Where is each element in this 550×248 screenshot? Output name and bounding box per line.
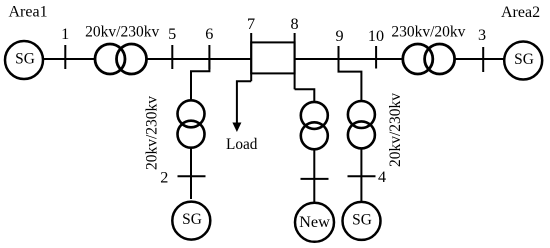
svg-text:8: 8 bbox=[290, 15, 298, 33]
node bus 6 bbox=[208, 45, 210, 69]
svg-text:10: 10 bbox=[368, 27, 384, 45]
node bus 10 bbox=[375, 46, 377, 69]
svg-text:20kv/230kv: 20kv/230kv bbox=[387, 93, 404, 167]
wire load branch bbox=[237, 81, 251, 123]
node bus New tick bbox=[301, 178, 329, 180]
wire branch bus8 to New transformer bbox=[295, 89, 315, 102]
generator SG Area1 bbox=[5, 41, 43, 79]
svg-text:20kv/230kv: 20kv/230kv bbox=[85, 24, 159, 41]
node bus 3 bbox=[482, 47, 484, 72]
transformer T3 230kv/20kv bbox=[403, 44, 455, 74]
svg-text:1: 1 bbox=[61, 25, 69, 43]
svg-text:Area1: Area1 bbox=[9, 4, 48, 21]
svg-text:SG: SG bbox=[15, 51, 35, 68]
transformer T1 20kv/230kv bbox=[95, 44, 147, 74]
wire main bus left bbox=[43, 58, 251, 60]
node bus 1 bbox=[64, 45, 66, 69]
svg-text:3: 3 bbox=[478, 26, 486, 44]
wire main bus right bbox=[295, 58, 504, 60]
generator SG Area2 bbox=[504, 42, 542, 80]
transformer T5 vertical bus4 bbox=[348, 101, 375, 148]
node bus 2 bbox=[178, 175, 206, 177]
wire New column bbox=[313, 149, 315, 202]
node bus 5 bbox=[171, 45, 173, 69]
node bus 7 bbox=[250, 33, 252, 81]
wire branch bus9 down bbox=[339, 59, 362, 100]
transformer T4 (New) vertical bbox=[301, 102, 328, 149]
load arrow bbox=[232, 123, 241, 133]
svg-text:SG: SG bbox=[352, 211, 372, 228]
svg-text:2: 2 bbox=[160, 169, 168, 187]
generator SG bus2 bbox=[172, 202, 210, 240]
svg-text:7: 7 bbox=[247, 15, 255, 33]
generator New bbox=[295, 203, 334, 242]
svg-text:9: 9 bbox=[336, 27, 344, 45]
generator SG bus4 bbox=[343, 202, 381, 240]
svg-text:Load: Load bbox=[226, 136, 258, 153]
svg-text:6: 6 bbox=[205, 25, 213, 43]
node bus 8 bbox=[294, 33, 296, 89]
svg-text:Area2: Area2 bbox=[501, 4, 540, 21]
node bus 9 bbox=[338, 46, 340, 69]
svg-text:4: 4 bbox=[378, 168, 386, 186]
svg-text:SG: SG bbox=[514, 51, 534, 68]
svg-text:230kv/20kv: 230kv/20kv bbox=[391, 24, 465, 41]
transformer T2 20kv/230kv vertical bbox=[178, 100, 205, 147]
tie-line rectangle 7-8 bbox=[251, 42, 294, 73]
svg-text:5: 5 bbox=[168, 25, 176, 43]
node bus 4 bbox=[348, 175, 376, 177]
svg-text:SG: SG bbox=[182, 211, 202, 228]
wire bus4 column bbox=[360, 148, 362, 201]
svg-text:20kv/230kv: 20kv/230kv bbox=[144, 96, 161, 170]
svg-text:New: New bbox=[299, 212, 330, 231]
wire branch bus6 down bbox=[191, 59, 209, 199]
